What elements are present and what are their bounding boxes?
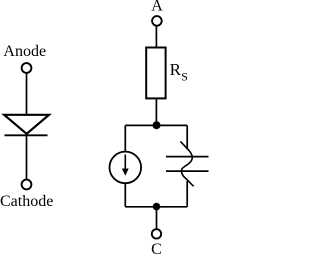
wire capacitor to bottom rail <box>186 181 188 207</box>
junction top node <box>153 121 161 129</box>
capacitor CJ nonlinear curve <box>180 141 193 186</box>
current source I1 arrowhead <box>122 169 129 176</box>
wire bottom rail <box>125 206 187 208</box>
capacitor CJ bottom plate <box>166 170 209 172</box>
junction bottom node <box>153 203 161 211</box>
resistor RS body <box>146 48 165 99</box>
terminal A <box>152 16 162 26</box>
wire anode to diode <box>26 74 28 116</box>
wire top rail to capacitor <box>186 125 188 149</box>
wire diode to cathode <box>26 135 28 180</box>
wire resistor to top node <box>155 99 157 125</box>
svg-text:Cathode: Cathode <box>0 193 53 210</box>
current source I1 circle <box>110 152 142 184</box>
anode terminal <box>22 63 32 73</box>
wire bottom node to terminal C <box>156 207 158 229</box>
svg-text:C: C <box>151 241 162 255</box>
diode D1 triangle <box>4 115 49 134</box>
svg-text:Anode: Anode <box>3 43 46 60</box>
wire A to resistor <box>155 26 157 47</box>
svg-text:A: A <box>151 0 163 15</box>
current source I1 arrow shaft <box>124 155 126 172</box>
diode D1 cathode bar <box>5 134 48 136</box>
cathode terminal <box>22 180 32 190</box>
wire current source to bottom rail <box>124 183 126 207</box>
capacitor CJ top plate <box>166 156 209 158</box>
wire top rail <box>125 124 187 126</box>
wire top rail to current source <box>124 125 126 151</box>
svg-text:R: R <box>170 60 182 79</box>
svg-text:S: S <box>181 69 188 83</box>
terminal C <box>152 229 161 238</box>
